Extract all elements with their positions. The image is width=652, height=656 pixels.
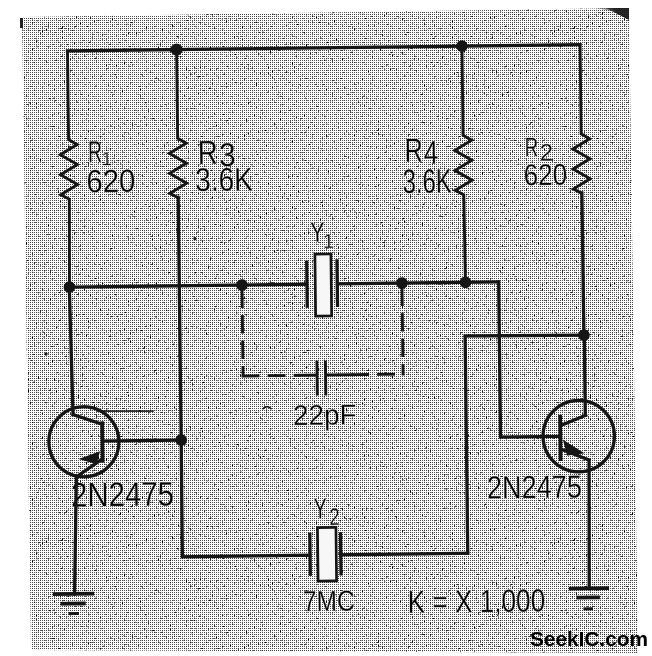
- transistor Q1 (2N2475): [48, 406, 181, 478]
- wire base node down to Y2 row: [181, 439, 310, 557]
- junction: top rail / R4: [456, 40, 468, 52]
- resistor R1: [59, 51, 79, 287]
- junction: Q1 base / R3 column: [175, 434, 187, 446]
- svg-text:2N2475: 2N2475: [71, 475, 174, 514]
- resistor R4: [453, 46, 473, 282]
- wire node row to Q2 base: [499, 281, 559, 437]
- svg-text:K = X 1,000: K = X 1,000: [407, 582, 545, 620]
- svg-text:7MC: 7MC: [303, 586, 355, 619]
- wire Q2 collector: [583, 335, 587, 415]
- wire R3 column to base node: [178, 198, 181, 440]
- junction: node row / C1 left: [236, 279, 248, 291]
- label R2: [525, 132, 554, 167]
- label R3: [198, 135, 236, 174]
- label R1: [88, 136, 112, 171]
- wire Y2 row right: [341, 553, 468, 555]
- wire node row right: [337, 282, 498, 284]
- ground (right): [571, 588, 608, 609]
- wire node row left: [69, 284, 306, 287]
- wire Q1 emitter to ground: [73, 477, 78, 594]
- wire feedback: Q2 collector node to Y2 right: [465, 335, 586, 554]
- svg-text:620: 620: [523, 159, 567, 193]
- wire V+ top rail: [67, 45, 580, 51]
- label R4: [405, 133, 439, 172]
- svg-text:3.6K: 3.6K: [195, 160, 253, 198]
- junction: node row / R1-Q1 column: [64, 281, 76, 293]
- svg-text:2N2475: 2N2475: [487, 468, 582, 505]
- junction: R2 column / feedback: [578, 329, 590, 341]
- label Y2: [314, 493, 340, 531]
- svg-text:620: 620: [86, 163, 135, 200]
- crystal Y2: [310, 527, 341, 581]
- ground (left): [55, 594, 93, 614]
- svg-text:2: 2: [329, 504, 339, 531]
- wire Q2 emitter to ground: [588, 460, 591, 588]
- svg-text:22pF: 22pF: [293, 399, 357, 432]
- crystal Y1: [307, 254, 338, 316]
- junction: node row / R4: [460, 276, 472, 288]
- svg-text:1: 1: [323, 231, 334, 253]
- wire R2 column to feedback node: [582, 193, 584, 335]
- resistor R2: [572, 45, 591, 194]
- junction: node row / C1 right: [396, 277, 408, 289]
- capacitor C1 (22pF, dashed alternate path): [242, 289, 403, 395]
- wire Q1 collector column: [69, 287, 73, 415]
- junction: top rail / R3: [171, 44, 183, 56]
- resistor R3: [168, 50, 187, 198]
- label Y1: [310, 216, 334, 253]
- svg-text:SeekIC.com: SeekIC.com: [530, 629, 648, 651]
- svg-text:R: R: [525, 132, 539, 162]
- svg-text:3.6K: 3.6K: [402, 163, 452, 202]
- transistor Q2 (2N2475): [543, 400, 615, 472]
- svg-text:Y: Y: [314, 493, 327, 525]
